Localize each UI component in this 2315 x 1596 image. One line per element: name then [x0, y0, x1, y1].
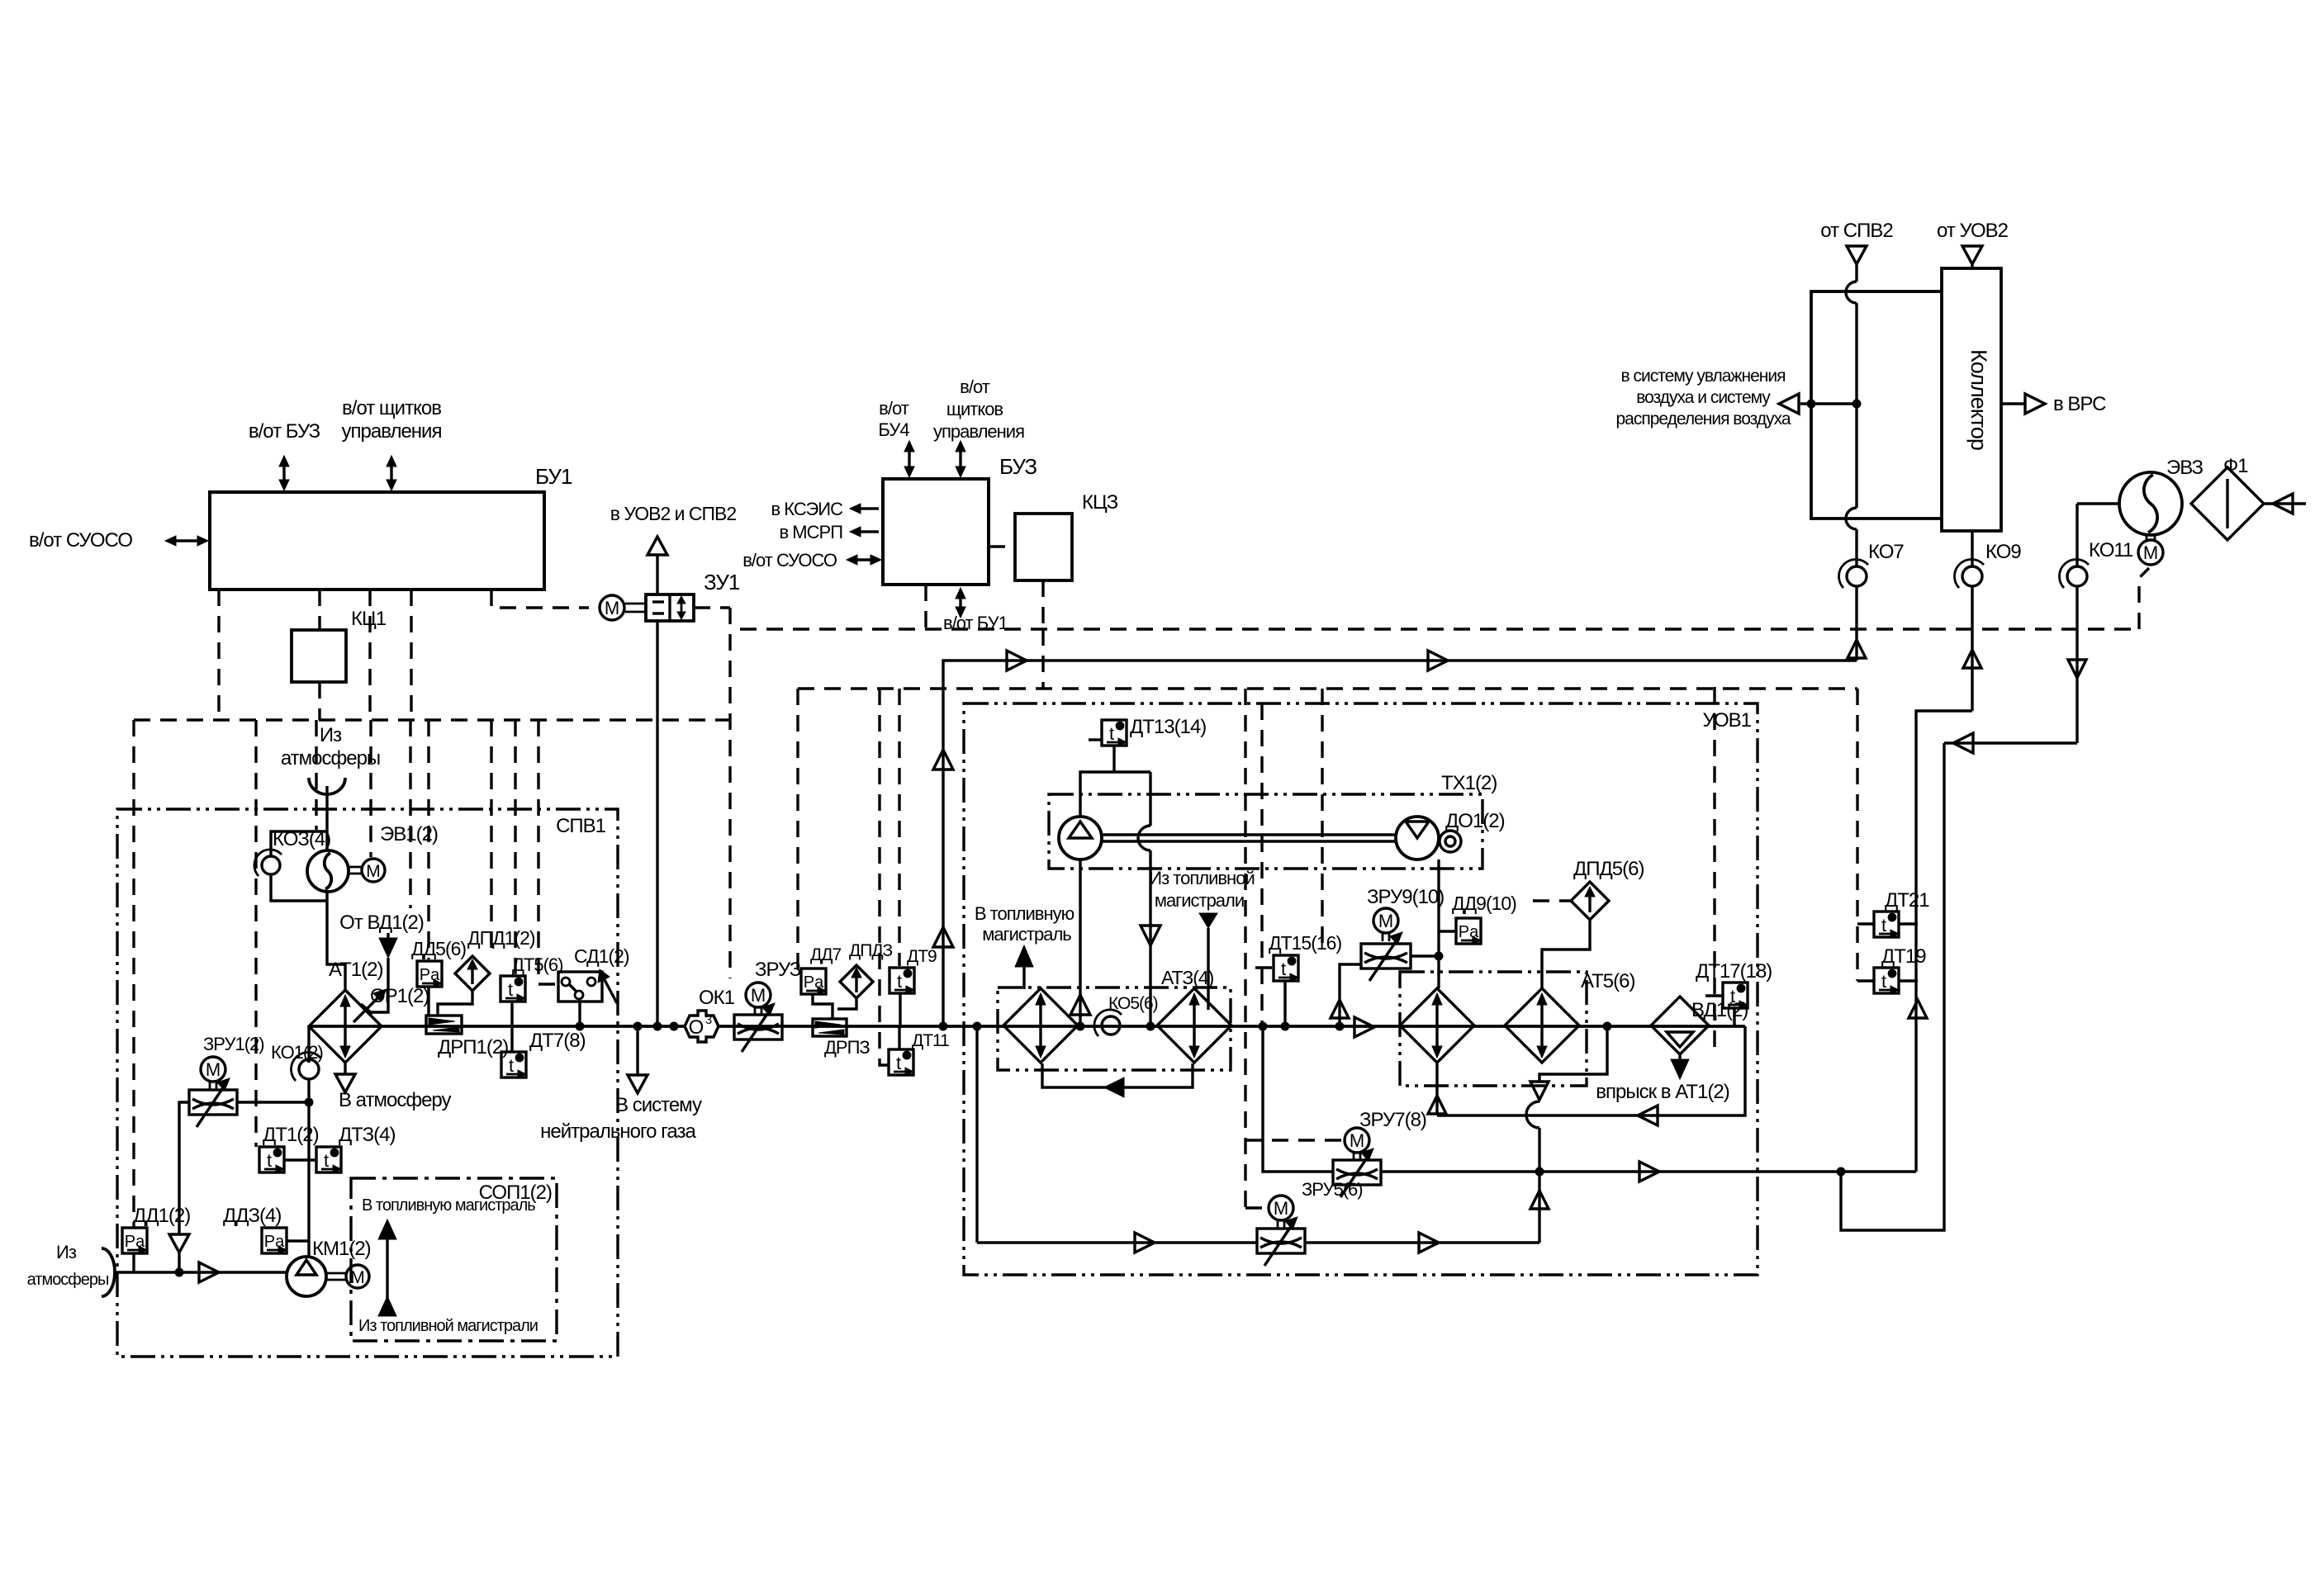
node inlet junction — [175, 1268, 183, 1276]
wire dashed drop x519 — [427, 720, 429, 959]
temperature sensor ДТ7(8) — [501, 1052, 526, 1077]
svg-text:ДРПЗ: ДРПЗ — [824, 1037, 870, 1058]
svg-text:КМ1(2): КМ1(2) — [312, 1238, 371, 1260]
regulator ЗРУЗ — [734, 1015, 782, 1040]
svg-text:ДД1(2): ДД1(2) — [133, 1205, 190, 1227]
filter Ф1 — [2191, 467, 2264, 540]
svg-text:M: M — [366, 862, 381, 881]
svg-text:щитков: щитков — [946, 399, 1003, 419]
wire ДТ1 ДТЗ stubs — [285, 1158, 316, 1161]
pressure sensor ДД7 — [801, 968, 826, 994]
node ЗРУ1 junction — [305, 1098, 313, 1106]
wire ЗРУ9 left leg — [1340, 964, 1361, 1026]
wire КО11 line — [2075, 504, 2078, 566]
arrow в ВРС — [2001, 402, 2025, 405]
wire Коллектор to КО9 — [1971, 531, 1973, 566]
arrow down to inlet from ЗРУ1 — [169, 1234, 189, 1253]
check valve КО7 — [1847, 566, 1867, 586]
motor M of ЗУ1 — [600, 595, 624, 620]
svg-text:ДТ9: ДТ9 — [907, 947, 937, 966]
shaft ТХ1 — [1102, 833, 1396, 836]
node x1183 — [973, 1022, 981, 1030]
svg-text:управления: управления — [342, 420, 442, 443]
arrow up on bypass x1864 — [1538, 1172, 1540, 1243]
pitot ДПДЗ — [840, 965, 873, 998]
check valve КО11 — [2067, 566, 2087, 586]
svg-text:в систему увлажнения: в систему увлажнения — [1621, 367, 1786, 386]
node ЗРУ7 x2229 — [1837, 1167, 1845, 1176]
wire БУ1 right bottom dashed to ЗУ1 — [491, 590, 589, 608]
svg-text:О: О — [689, 1016, 704, 1039]
svg-text:ДТ15(16): ДТ15(16) — [1269, 932, 1341, 954]
node on main line at ЗУ1 drop — [653, 1022, 662, 1030]
svg-text:ЗРУ9(10): ЗРУ9(10) — [1367, 886, 1444, 908]
heat exchanger АТЗ left — [1003, 988, 1078, 1063]
svg-text:ДРП1(2): ДРП1(2) — [438, 1036, 508, 1058]
wire dashed stub ДТ15 — [1255, 966, 1274, 968]
svg-text:управления: управления — [933, 421, 1024, 442]
motor M of ЭВЗ — [2146, 535, 2148, 541]
wire dashed frame left edge x966 — [796, 689, 799, 973]
svg-text:в/от: в/от — [879, 398, 909, 419]
fan ЭВЗ — [2119, 472, 2182, 535]
wire dashed elbow to ЗРУ5 motor — [1245, 1206, 1268, 1209]
wire ДПДЗ down — [837, 998, 856, 1009]
wire x1183 down to ЗРУ5 line — [975, 1026, 978, 1243]
svg-text:АТ5(6): АТ5(6) — [1581, 970, 1634, 992]
svg-text:магистраль: магистраль — [982, 924, 1071, 945]
svg-text:t: t — [324, 1150, 329, 1171]
svg-text:УОВ1: УОВ1 — [1703, 709, 1752, 732]
wire supply line y800 from x1142 to КО7 — [943, 661, 1857, 1026]
wire ДПД1 down — [438, 991, 472, 1016]
svg-text:впрыск в АТ1(2): впрыск в АТ1(2) — [1596, 1081, 1729, 1103]
wire ДД1 stub down — [132, 1253, 135, 1272]
wire ЗРУ7 line to right — [1381, 1170, 1916, 1172]
svg-text:ДД7: ДД7 — [810, 945, 841, 964]
pressure sensor ДД1(2) — [122, 1228, 147, 1253]
svg-text:ДТ17(18): ДТ17(18) — [1696, 960, 1772, 983]
wire ДД5 to ДРП1 — [427, 987, 429, 1016]
check valve КО9 — [1962, 566, 1982, 586]
svg-text:ДД5(6): ДД5(6) — [411, 938, 466, 959]
control unit БУ1 — [210, 492, 544, 590]
signal device СД1(2) — [558, 972, 602, 1002]
water separator ВД1(2) — [1651, 997, 1709, 1054]
check valve КО1(2) — [307, 1026, 310, 1063]
svg-text:Из: Из — [320, 724, 342, 746]
wire dashed drop x310 to ДТ1 — [254, 720, 257, 1147]
wire ЗРУ1 left down to inlet — [179, 1102, 189, 1234]
wire КО11 corner to x2354 — [1944, 741, 2077, 744]
pressure sensor ДД5(6) — [417, 961, 442, 987]
wire СД1 stub down — [578, 1002, 581, 1026]
wire dashed vertical x1528 — [1260, 703, 1263, 1026]
wire ДД7 to ДРПЗ — [813, 994, 833, 1019]
regulator ЗРУ5(6) — [1257, 1229, 1305, 1253]
svg-text:СД1(2): СД1(2) — [574, 945, 629, 967]
wire dashed bus to ЭВЗ motor — [2139, 568, 2149, 629]
svg-text:КЦЗ: КЦЗ — [1082, 491, 1118, 514]
wire КО1 down — [307, 1079, 310, 1257]
temperature sensor ДТ9 — [889, 968, 914, 993]
boundary СОП1 dash-dot box — [351, 1178, 557, 1341]
heat exchanger АТ5 right — [1505, 988, 1579, 1063]
svg-text:t: t — [1881, 971, 1886, 992]
wire dashed from ЗУ1 to right — [694, 606, 730, 609]
wire dashed elbow to ЗРУ7 motor — [1245, 1139, 1344, 1141]
wire ЗРУ5 line — [977, 1241, 1257, 1243]
arrow on inlet line — [199, 1262, 219, 1282]
block Коллектор — [1942, 268, 2001, 531]
arrow в/от щитков управления to БУ1 — [390, 462, 392, 484]
compressor of ТХ1 — [1059, 817, 1102, 860]
svg-text:атмосферы: атмосферы — [27, 1271, 109, 1289]
wire КО9 down — [1971, 586, 1973, 711]
svg-text:в/от БУЗ: в/от БУЗ — [249, 420, 320, 443]
arrow в МСРП from БУЗ — [869, 530, 881, 533]
svg-text:магистрали: магистрали — [1155, 890, 1244, 911]
arrow в/от СУОСО to БУ1 — [172, 539, 202, 542]
wire АТ5 left leg to впрыск line — [1435, 1063, 1438, 1115]
check valve КОЗ(4) — [271, 831, 327, 855]
wire БУ1 dashed drops to bus — [217, 590, 220, 720]
arrow в/от БУ1 below БУЗ — [959, 594, 961, 611]
orifice ОР1(2) — [353, 994, 382, 1022]
wire main flow line — [309, 1025, 1745, 1028]
temperature sensor ДТЗ(4) — [316, 1147, 341, 1172]
svg-text:Из топливной: Из топливной — [1149, 868, 1254, 888]
wire intake down to fan — [325, 786, 328, 851]
svg-text:ЗРУЗ: ЗРУЗ — [755, 959, 801, 981]
wire dashed stub ДТ13 — [1089, 738, 1102, 741]
wire dashed frame y834 — [798, 687, 1857, 689]
svg-text:ТХ1(2): ТХ1(2) — [1441, 772, 1497, 794]
wire ДТ7 stub — [510, 1026, 513, 1052]
svg-text:КЦ1: КЦ1 — [351, 608, 387, 630]
wire dashed vertical x1508 to ЗРУ actuators — [1244, 689, 1246, 1208]
boundary АТ5 dash-dot-dot box — [1400, 972, 1587, 1086]
svg-text:Коллектор: Коллектор — [1966, 349, 1991, 450]
svg-text:В топливную: В топливную — [975, 903, 1074, 924]
wire ЗРУ9 right to turbine leg — [1411, 954, 1439, 957]
svg-text:в МСРП: в МСРП — [780, 522, 843, 542]
heat exchanger АТ1(2) — [309, 990, 382, 1063]
svg-text:ДО1(2): ДО1(2) — [1445, 810, 1505, 832]
node СД1 main line — [576, 1022, 584, 1030]
motor M of ЗРУ9 — [1373, 908, 1398, 933]
svg-text:t: t — [508, 979, 513, 1000]
svg-text:от СПВ2: от СПВ2 — [1820, 220, 1893, 242]
svg-text:нейтрального газа: нейтрального газа — [540, 1120, 696, 1143]
svg-text:ЗРУ7(8): ЗРУ7(8) — [1359, 1109, 1426, 1131]
temperature sensor ДТ13(14) — [1102, 720, 1127, 746]
svg-text:ДПДЗ: ДПДЗ — [849, 941, 893, 960]
wire ДТ5 stub — [510, 1002, 513, 1026]
svg-text:ДПД1(2): ДПД1(2) — [467, 927, 535, 949]
svg-text:t: t — [1881, 915, 1886, 935]
temperature sensor ДТ11 — [889, 1049, 913, 1075]
temperature sensor ДТ21 — [1874, 912, 1899, 937]
temperature sensor ДТ1(2) — [259, 1147, 284, 1172]
restrictor ДРПЗ — [813, 1019, 847, 1036]
wire bypass loop under АТЗ — [1042, 1063, 1193, 1087]
svg-text:ДТ13(14): ДТ13(14) — [1130, 716, 1206, 738]
svg-text:Ф1: Ф1 — [2223, 455, 2248, 477]
wire ЗРУ1 to КО1 node — [237, 1101, 309, 1103]
motor M of ЭВ1 — [362, 859, 385, 882]
fan ЭВ1(2) — [307, 850, 349, 892]
wire dashed drop x1089 to ДТ9 — [898, 689, 900, 966]
svg-text:КО1(2): КО1(2) — [271, 1042, 323, 1063]
wire КО7 down to supply corner — [1855, 586, 1857, 661]
temperature sensor ДТ5(6) — [500, 976, 525, 1002]
wire x1529 down to ЗРУ7 line — [1263, 1026, 1332, 1172]
svg-text:АТЗ(4): АТЗ(4) — [1161, 967, 1214, 988]
wire ДПД5 dashed left — [1533, 899, 1571, 902]
arrow on main line before АТ5 — [1354, 1017, 1374, 1037]
svg-text:СПВ1: СПВ1 — [556, 815, 606, 837]
svg-text:ЗРУ5(6): ЗРУ5(6) — [1302, 1179, 1363, 1200]
arrow впрыск return — [1638, 1106, 1658, 1125]
motor M of ЗРУ7 — [1345, 1128, 1369, 1153]
temperature sensor ДТ17(18) — [1723, 983, 1748, 1008]
wire dashed drop x624 — [514, 720, 516, 974]
svg-text:КО7: КО7 — [1868, 541, 1904, 563]
wire dashed bus y762 (right) — [740, 628, 2139, 630]
node ОК1 left — [670, 1022, 678, 1030]
restrictor plate ДРП1(2) — [426, 1016, 462, 1034]
temperature sensor ДТ15(16) — [1274, 955, 1298, 981]
wire КЦ1 to bus — [318, 682, 320, 720]
motor M of КМ1 — [326, 1272, 346, 1275]
svg-text:Из топливной магистрали: Из топливной магистрали — [358, 1317, 538, 1335]
check valve КО5(6) — [1102, 1016, 1120, 1035]
wire КЦЗ drop to bus — [1041, 580, 1044, 629]
node main line x1529 — [1259, 1022, 1267, 1030]
svg-text:в ВРС: в ВРС — [2053, 393, 2106, 415]
heat exchanger АТ5 left — [1400, 988, 1474, 1063]
humidify system line — [1800, 402, 1857, 405]
svg-text:M: M — [1378, 911, 1393, 931]
wire ДТ19 stubs — [1857, 979, 1874, 982]
compressor КМ1(2) — [287, 1257, 326, 1296]
wire fan down to АТ1 — [327, 892, 345, 990]
svg-text:t: t — [509, 1055, 514, 1076]
wire ДДЗ to КМ1 line — [287, 1239, 309, 1242]
svg-text:t: t — [896, 1053, 901, 1073]
svg-text:t: t — [1109, 723, 1114, 744]
svg-text:в/от СУОСО: в/от СУОСО — [29, 529, 132, 552]
wire dashed bus y872 (left) — [134, 718, 730, 721]
regulator ЗРУ7(8) — [1333, 1160, 1381, 1185]
arrow up on x1142 — [933, 750, 953, 770]
svg-text:ДТ11: ДТ11 — [912, 1031, 949, 1050]
svg-text:M: M — [751, 985, 766, 1006]
pressure sensor ДДЗ(4) — [262, 1228, 287, 1253]
boundary turbo unit dash-dot-dot — [1049, 794, 1482, 869]
motor M of ЗРУЗ — [746, 983, 771, 1007]
svg-text:M: M — [350, 1268, 365, 1287]
svg-text:M: M — [1274, 1198, 1288, 1219]
wire turbine leg down to АТ5 — [1437, 860, 1440, 988]
svg-text:В топливную магистраль: В топливную магистраль — [362, 1196, 535, 1215]
pitot ДПД1(2) — [455, 956, 490, 991]
arrow on bypass — [1104, 1077, 1124, 1097]
svg-text:ДПД5(6): ДПД5(6) — [1573, 858, 1644, 880]
boundary УОВ1 dash-dot-dot box — [964, 703, 1758, 1275]
motor M of ЗРУ1 — [201, 1057, 225, 1082]
ozonator ОК1 — [685, 1011, 719, 1042]
wire БУ1 to КЦ1 — [318, 590, 320, 630]
svg-text:ЗРУ1(2): ЗРУ1(2) — [203, 1034, 264, 1054]
svg-text:ОР1(2): ОР1(2) — [370, 985, 429, 1007]
svg-text:ЗУ1: ЗУ1 — [704, 570, 740, 594]
svg-text:t: t — [267, 1150, 272, 1171]
wire ВД1 drain впрыск — [1678, 1054, 1681, 1061]
wire branch В систему нейтрального газа — [636, 1026, 638, 1075]
temperature sensor ДТ19 — [1874, 968, 1899, 993]
svg-text:В систему: В систему — [615, 1094, 702, 1116]
regulator ЗРУ1(2) — [189, 1090, 237, 1115]
wire filter right with arrow — [2264, 502, 2306, 504]
svg-text:в УОВ2 и СПВ2: в УОВ2 и СПВ2 — [610, 503, 737, 524]
wire dashed vertical x1601 — [1321, 689, 1323, 950]
wire hood leg down — [1149, 772, 1151, 826]
pitot ДПД5(6) — [1571, 882, 1609, 920]
svg-text:КО11: КО11 — [2089, 539, 2133, 561]
wire ДПД5 down to АТ5 — [1542, 920, 1590, 988]
svg-text:t: t — [897, 971, 902, 992]
pressure sensor ДД9(10) — [1456, 918, 1481, 944]
regulator ЗРУ9(10) — [1361, 944, 1411, 968]
svg-text:ДДЗ(4): ДДЗ(4) — [223, 1205, 281, 1227]
block КЦЗ — [1015, 514, 1072, 580]
wire ДТ21 stubs — [1857, 922, 1874, 925]
speed sensor ДО1(2) — [1440, 831, 1461, 852]
wire corner x2229 down right up — [1841, 743, 1944, 1230]
svg-text:в КСЭИС: в КСЭИС — [771, 499, 843, 519]
boundary СПВ1 dash-dot-dot box — [117, 809, 618, 1357]
svg-text:ДД9(10): ДД9(10) — [1452, 893, 1516, 914]
wire dashed bus stub left end down to ДД1 — [132, 720, 135, 1228]
svg-text:Из: Из — [56, 1242, 77, 1262]
svg-text:ДТЗ(4): ДТЗ(4) — [339, 1124, 395, 1146]
svg-text:БУ1: БУ1 — [535, 464, 572, 489]
arrow up on x2322 — [1909, 1000, 1927, 1018]
wire КЦЗ link — [989, 545, 1015, 547]
wire dashed drop x652 — [538, 720, 557, 984]
node main line x1142 — [939, 1022, 947, 1030]
arrow в КСЭИС from БУЗ — [869, 507, 881, 509]
arrow в/от СУОСО to БУЗ — [853, 558, 875, 561]
wire ЗУ1 vertical down to main line — [656, 621, 658, 1026]
wire dashed drop x449 — [369, 720, 372, 857]
wire bypass U under АТ5 right — [1539, 1026, 1607, 1082]
wire dashed drop x383 — [315, 720, 317, 830]
wire dashed УОВ1 outer left edge x2076 — [1713, 687, 1715, 1057]
wire fan to КО11 — [2077, 502, 2119, 504]
svg-text:3: 3 — [705, 1013, 712, 1027]
arrow в/от щитков управления to БУЗ — [959, 448, 961, 471]
svg-text:M: M — [1350, 1130, 1364, 1151]
control unit БУЗ — [883, 479, 989, 585]
wire dashed drop x1065 to ДТ11 — [880, 689, 889, 1065]
wire dashed х1263 bus to frame — [1041, 629, 1044, 689]
svg-text:ДТ19: ДТ19 — [1881, 945, 1926, 968]
svg-text:ДТ21: ДТ21 — [1885, 889, 1929, 912]
svg-text:атмосферы: атмосферы — [281, 747, 380, 770]
svg-text:воздуха и систему: воздуха и систему — [1636, 388, 1771, 407]
svg-text:в/от: в/от — [960, 377, 990, 397]
wire От ВД1 down to orifice — [367, 958, 388, 1012]
svg-text:от УОВ2: от УОВ2 — [1937, 220, 2009, 242]
wire compressor leg down — [1079, 860, 1081, 1026]
svg-text:ДТ1(2): ДТ1(2) — [263, 1124, 319, 1146]
svg-text:ЭВЗ: ЭВЗ — [2166, 457, 2203, 479]
svg-text:ОК1: ОК1 — [699, 987, 735, 1009]
wire АТ1 to атмосфера drain — [344, 1063, 346, 1073]
arrow в/от БУЗ to БУ1 — [282, 462, 285, 484]
svg-text:В атмосферу: В атмосферу — [339, 1089, 452, 1111]
svg-text:t: t — [1281, 959, 1286, 979]
arrows on ЗРУ5 line — [1135, 1233, 1155, 1253]
svg-text:От ВД1(2): От ВД1(2) — [339, 912, 424, 934]
wire dashed drop x497 — [409, 720, 411, 908]
arrow on ЗРУ7 line — [1639, 1162, 1659, 1182]
svg-text:M: M — [2143, 542, 2158, 563]
svg-text:в/от СУОСО: в/от СУОСО — [742, 550, 837, 571]
heat exchanger АТЗ(4) — [1157, 988, 1231, 1063]
svg-text:БУЗ: БУЗ — [999, 454, 1037, 479]
wire dashed vertical х884 — [728, 608, 731, 978]
boundary АТЗ dash-dot-dot box — [998, 987, 1231, 1070]
wire dashed stub ДТ17 — [1705, 994, 1723, 997]
loop frame left of Коллектор — [1811, 291, 1943, 519]
solenoid valve ЗУ1 — [646, 594, 694, 621]
compressor hood — [1080, 772, 1150, 817]
svg-text:БУ4: БУ4 — [878, 419, 909, 440]
svg-text:в/от щитков: в/от щитков — [342, 397, 441, 419]
motor M of ЗРУ5 — [1269, 1196, 1293, 1220]
wire БУЗ bottom dashed drop — [924, 585, 927, 629]
svg-text:ДТ7(8): ДТ7(8) — [529, 1030, 586, 1052]
wire x2320 up — [1916, 711, 1972, 1172]
svg-text:распределения воздуха: распределения воздуха — [1615, 410, 1791, 429]
arrow в/от БУ4 to БУЗ — [908, 448, 910, 471]
arrow on supply line 1 — [1007, 651, 1027, 670]
wire dashed drop x595 — [490, 720, 492, 954]
svg-text:M: M — [605, 598, 619, 618]
wire СПВ2 line down to КО7 — [1855, 303, 1857, 508]
wire ЗУ1 up to УОВ2 и СПВ2 — [656, 555, 658, 594]
wire main line end corner down — [1437, 1026, 1745, 1115]
svg-text:t: t — [1730, 986, 1735, 1006]
svg-text:M: M — [206, 1059, 221, 1080]
block КЦ1 — [292, 630, 346, 682]
svg-text:КОЗ(4): КОЗ(4) — [273, 828, 330, 850]
arrow on supply line 2 — [1428, 651, 1448, 670]
wire inlet line — [115, 1271, 287, 1273]
svg-text:КО9: КО9 — [1985, 541, 2021, 563]
wire dashed feeder x2249 to ДТ21 ДТ19 — [1856, 689, 1858, 981]
turbine of ТХ1 — [1396, 817, 1439, 860]
svg-text:АТ1(2): АТ1(2) — [329, 959, 382, 981]
